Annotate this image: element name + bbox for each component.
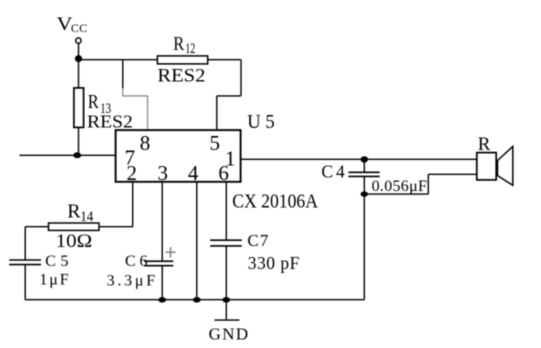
svg-text:R: R (173, 34, 184, 55)
svg-text:U 5: U 5 (247, 111, 275, 133)
svg-text:4: 4 (188, 161, 199, 185)
svg-text:2: 2 (126, 161, 137, 185)
svg-text:8: 8 (140, 131, 151, 155)
svg-text:3.3μF: 3.3μF (107, 272, 156, 289)
svg-text:5: 5 (210, 131, 221, 155)
svg-text:0.056μF: 0.056μF (372, 178, 427, 195)
svg-text:RES2: RES2 (157, 66, 205, 87)
svg-text:CX 20106A: CX 20106A (232, 190, 318, 212)
svg-text:R: R (67, 201, 81, 223)
svg-text:3: 3 (157, 161, 168, 185)
svg-text:14: 14 (80, 209, 94, 225)
svg-text:R: R (88, 91, 100, 113)
svg-text:1μF: 1μF (39, 271, 68, 288)
svg-text:12: 12 (185, 41, 195, 57)
svg-text:330 pF: 330 pF (248, 253, 300, 273)
svg-text:10Ω: 10Ω (56, 231, 92, 252)
svg-text:GND: GND (209, 324, 249, 343)
svg-text:6: 6 (218, 161, 229, 185)
svg-text:C7: C7 (247, 231, 269, 250)
svg-text:R: R (478, 134, 491, 155)
svg-text:CC: CC (71, 21, 87, 35)
svg-text:RES2: RES2 (87, 112, 133, 132)
